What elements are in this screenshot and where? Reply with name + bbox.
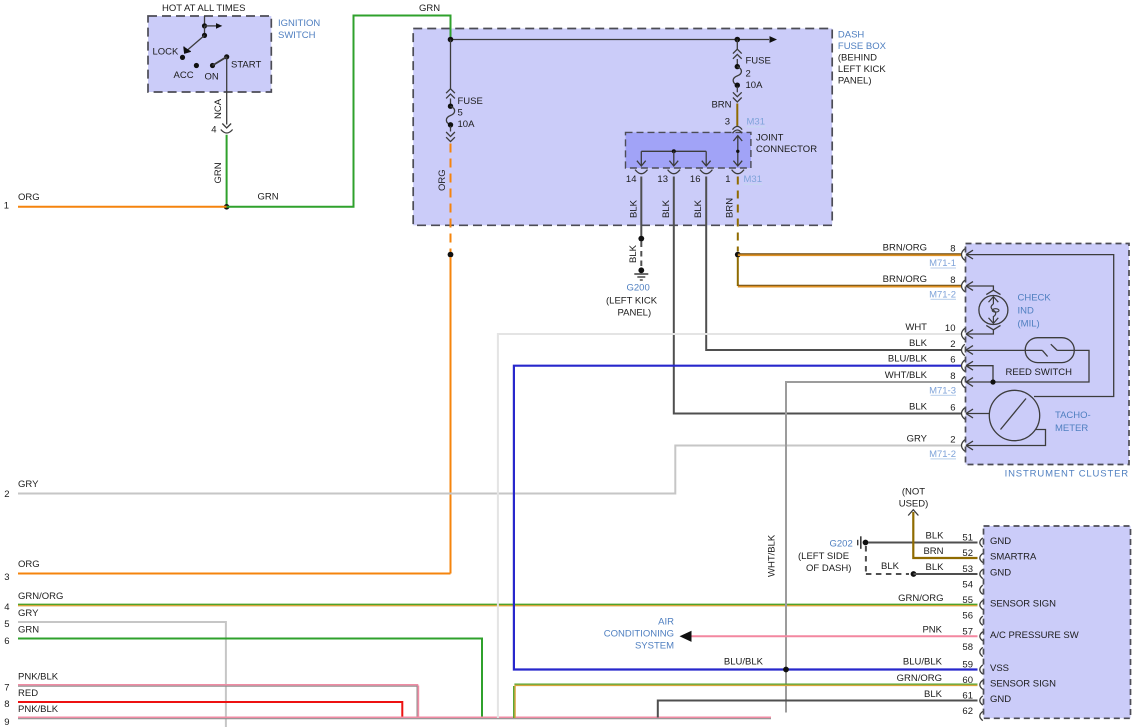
svg-text:BLK: BLK	[693, 199, 704, 218]
svg-text:GRY: GRY	[18, 608, 39, 619]
joint pin 14 arrow	[640, 151, 642, 166]
svg-text:GRN/ORG: GRN/ORG	[18, 591, 63, 602]
node battery feed	[202, 23, 207, 28]
fuse box bus wire	[451, 39, 770, 41]
wire ORG dashed below fuse 5	[450, 144, 452, 253]
cluster pin 8 WHT/BLK	[962, 376, 965, 388]
connector arcs below joint connector	[635, 170, 647, 174]
svg-text:BLK: BLK	[909, 338, 928, 349]
switch blade toward LOCK	[188, 35, 205, 50]
fuse 2 10A	[736, 59, 738, 65]
wire BLU/BLK VSS	[514, 366, 978, 670]
wire BLK pin 14 to G200	[640, 177, 642, 237]
node switch pivot	[204, 26, 206, 36]
instrument cluster box	[966, 244, 1130, 465]
svg-text:GND: GND	[990, 568, 1011, 579]
svg-text:A/C PRESSURE SW: A/C PRESSURE SW	[990, 630, 1079, 641]
svg-text:10A: 10A	[458, 119, 476, 130]
svg-text:BRN: BRN	[711, 100, 731, 111]
svg-text:54: 54	[962, 580, 973, 591]
wire RED circuit 8	[18, 702, 402, 718]
svg-text:61: 61	[962, 691, 973, 702]
svg-text:G200: G200	[627, 283, 650, 294]
svg-text:6: 6	[950, 355, 955, 366]
svg-text:GRY: GRY	[907, 434, 928, 445]
contact START	[224, 54, 229, 59]
svg-text:BLK: BLK	[924, 689, 943, 700]
svg-text:BRN: BRN	[725, 198, 736, 218]
svg-text:LOCK: LOCK	[153, 47, 180, 58]
cluster pin 6 BLK M71-3	[962, 408, 965, 420]
wire GRN circuit 6	[18, 639, 482, 718]
svg-text:6: 6	[950, 403, 955, 414]
svg-text:ORG: ORG	[18, 192, 40, 203]
node ORG/GRN junction	[224, 204, 230, 210]
fuse F2 lead	[736, 40, 738, 50]
wire BLK to ECM 61	[658, 701, 978, 718]
contact LOCK	[180, 55, 185, 60]
svg-text:CONDITIONING: CONDITIONING	[604, 629, 674, 640]
svg-text:51: 51	[962, 533, 973, 544]
ECM pin 51	[980, 538, 983, 547]
svg-text:IND: IND	[1018, 306, 1035, 317]
svg-text:13: 13	[657, 174, 668, 185]
svg-text:METER: METER	[1055, 423, 1088, 434]
svg-text:BLK: BLK	[661, 199, 672, 218]
svg-text:GRN/ORG: GRN/ORG	[898, 593, 943, 604]
cluster pin M71-2 8	[962, 280, 965, 292]
svg-text:BLK: BLK	[909, 402, 928, 413]
svg-text:(BEHIND: (BEHIND	[838, 52, 877, 63]
svg-text:PANEL): PANEL)	[838, 75, 872, 86]
wire BRN dashed pin 1	[737, 177, 739, 252]
svg-text:FUSE: FUSE	[746, 56, 771, 67]
svg-text:7: 7	[4, 683, 9, 694]
tachometer	[989, 390, 1039, 440]
svg-text:GRN: GRN	[18, 625, 39, 636]
contact ACC	[194, 63, 199, 68]
svg-text:PANEL): PANEL)	[618, 308, 652, 319]
wire BLK G202 to ECM 51	[868, 542, 978, 544]
svg-text:INSTRUMENT CLUSTER: INSTRUMENT CLUSTER	[1005, 469, 1129, 480]
cluster wire reed switch to pins 6/8	[966, 350, 1089, 382]
cluster wire pin6 join	[966, 366, 993, 382]
cluster wire pin8 to check lamp	[966, 286, 993, 291]
contact ON	[210, 63, 215, 68]
wire BLK dashed G202 to ECM 53	[865, 546, 867, 574]
ECM connector box	[984, 526, 1131, 718]
svg-text:CHECK: CHECK	[1018, 293, 1052, 304]
svg-text:WHT/BLK: WHT/BLK	[885, 370, 928, 381]
dash fuse box	[413, 29, 832, 226]
arrow to air conditioning system	[680, 631, 692, 642]
joint pin 13 arrow	[673, 151, 675, 166]
wire GRN to fuse box	[227, 16, 451, 207]
svg-text:1: 1	[4, 201, 9, 212]
svg-text:G202: G202	[830, 539, 853, 550]
ECM pin 54	[980, 585, 983, 594]
svg-text:9: 9	[4, 717, 9, 727]
svg-text:BRN/ORG: BRN/ORG	[883, 274, 927, 285]
svg-text:NCA: NCA	[213, 98, 224, 119]
svg-text:GRN/ORG: GRN/ORG	[897, 673, 942, 684]
svg-text:START: START	[231, 60, 261, 71]
svg-text:BLK: BLK	[881, 561, 900, 572]
svg-text:4: 4	[4, 602, 9, 613]
ECM pin 56	[980, 616, 983, 625]
svg-text:PNK/BLK: PNK/BLK	[18, 704, 59, 715]
svg-text:BLK: BLK	[628, 244, 639, 263]
cluster wire pin6 to tachometer	[966, 413, 989, 415]
ground G202	[857, 540, 859, 546]
wire START output	[226, 57, 228, 125]
svg-text:PNK: PNK	[922, 625, 942, 636]
wire BRN fuse 2 to M31	[736, 104, 738, 126]
svg-text:BLK: BLK	[926, 562, 945, 573]
svg-text:SYSTEM: SYSTEM	[635, 641, 674, 652]
svg-text:BRN: BRN	[923, 546, 943, 557]
svg-text:8: 8	[4, 699, 9, 710]
wire ORG circuit 1	[18, 206, 227, 208]
svg-text:6: 6	[4, 636, 9, 647]
ECM pin 61	[980, 696, 983, 705]
svg-text:JOINT: JOINT	[756, 133, 784, 144]
ECM pin 59	[980, 665, 983, 674]
svg-text:DASH: DASH	[838, 29, 865, 40]
check indicator lamp (MIL)	[979, 296, 1008, 325]
wire GRN/ORG to ECM 60	[514, 683, 977, 685]
svg-text:52: 52	[962, 548, 973, 559]
reed switch body	[1025, 338, 1074, 363]
svg-text:GND: GND	[990, 694, 1011, 705]
svg-text:3: 3	[4, 572, 9, 583]
svg-text:(LEFT KICK: (LEFT KICK	[606, 296, 658, 307]
svg-text:2: 2	[746, 69, 751, 80]
svg-text:ORG: ORG	[437, 169, 448, 191]
svg-text:8: 8	[950, 371, 955, 382]
cluster wire lamp to pin10	[966, 329, 993, 334]
wire PNK from A/C pressure switch	[691, 635, 978, 637]
wire PNK/BLK circuit 7	[18, 684, 418, 686]
node ORG splice	[448, 252, 454, 258]
svg-text:M31: M31	[747, 117, 765, 128]
svg-text:BLU/BLK: BLU/BLK	[888, 354, 928, 365]
svg-text:GRN: GRN	[419, 3, 440, 14]
svg-text:16: 16	[690, 174, 701, 185]
svg-text:REED SWITCH: REED SWITCH	[1006, 367, 1073, 378]
node bus left	[448, 37, 454, 43]
cluster pin 2 GRY	[962, 440, 965, 452]
svg-text:ON: ON	[205, 71, 219, 82]
wire WHT/BLK to cluster M71-3	[786, 382, 962, 713]
svg-text:OF DASH): OF DASH)	[806, 563, 851, 574]
svg-text:IGNITION: IGNITION	[278, 18, 320, 29]
svg-text:53: 53	[962, 564, 973, 575]
svg-text:FUSE BOX: FUSE BOX	[838, 41, 887, 52]
ground G200	[634, 273, 648, 275]
fuse F5 top chevrons	[446, 89, 455, 99]
joint pin 1 through wire	[737, 136, 739, 167]
svg-text:56: 56	[962, 611, 973, 622]
wire BRN vertical to M71-2	[737, 257, 739, 286]
connector M31 pin 3	[733, 126, 743, 129]
svg-text:59: 59	[962, 660, 973, 671]
svg-text:SENSOR SIGN: SENSOR SIGN	[990, 599, 1056, 610]
wire ORG circuit 3	[18, 573, 451, 575]
svg-text:8: 8	[950, 275, 955, 286]
node bus right	[735, 37, 741, 43]
joint connector bus	[641, 150, 706, 152]
svg-text:BLK: BLK	[629, 199, 640, 218]
svg-text:60: 60	[962, 675, 973, 686]
wire BLK pin 13	[674, 177, 962, 414]
ECM pin 53	[980, 569, 983, 578]
svg-text:8: 8	[950, 244, 955, 255]
svg-text:RED: RED	[18, 688, 38, 699]
joint connector box	[626, 132, 751, 168]
svg-text:(MIL): (MIL)	[1018, 319, 1040, 330]
svg-text:WHT: WHT	[905, 322, 927, 333]
svg-text:14: 14	[626, 174, 637, 185]
fuse F2 top chevrons	[733, 49, 742, 59]
wire PNK/BLK circuit 9	[18, 716, 771, 718]
svg-text:55: 55	[962, 595, 973, 606]
svg-text:3: 3	[725, 117, 730, 128]
cluster wire pin2 to tachometer	[966, 430, 1046, 446]
blade ON-START	[213, 57, 227, 66]
svg-text:BLU/BLK: BLU/BLK	[724, 657, 764, 668]
svg-text:BLK: BLK	[926, 531, 945, 542]
svg-text:AIR: AIR	[658, 617, 674, 628]
svg-text:PNK/BLK: PNK/BLK	[18, 672, 59, 683]
ECM pin 60	[980, 680, 983, 689]
wire ORG vertical to circuit 3	[450, 257, 452, 574]
svg-text:62: 62	[962, 706, 973, 717]
svg-text:GRN: GRN	[213, 162, 224, 183]
svg-text:GRN: GRN	[258, 192, 279, 203]
ECM pin 57	[980, 632, 983, 641]
wire GRN/ORG circuit 4	[18, 603, 978, 605]
svg-text:ACC: ACC	[174, 70, 194, 81]
svg-text:BLU/BLK: BLU/BLK	[903, 657, 943, 668]
joint pin 16 arrow	[705, 151, 707, 166]
svg-text:ORG: ORG	[18, 559, 40, 570]
svg-text:BRN/ORG: BRN/ORG	[883, 243, 927, 254]
svg-text:(NOT: (NOT	[902, 487, 925, 498]
arrow to ACC/ON feed	[205, 25, 217, 27]
cluster pin 10 WHT	[962, 328, 965, 340]
svg-text:FUSE: FUSE	[458, 96, 483, 107]
ECM pin 55	[980, 600, 983, 609]
wire GRY circuit 5	[18, 622, 226, 727]
svg-text:57: 57	[962, 626, 973, 637]
svg-text:10A: 10A	[746, 80, 764, 91]
svg-text:WHT/BLK: WHT/BLK	[767, 534, 778, 577]
svg-text:4: 4	[211, 125, 216, 136]
svg-text:M31: M31	[744, 174, 762, 185]
cluster pin 2 BLK	[962, 344, 965, 356]
svg-text:SMARTRA: SMARTRA	[990, 552, 1037, 563]
fuse F2 bottom chevrons	[733, 92, 742, 102]
svg-text:HOT AT ALL TIMES: HOT AT ALL TIMES	[162, 3, 245, 14]
svg-text:5: 5	[458, 108, 463, 119]
node cluster vss join	[990, 379, 995, 384]
cluster wire pin2 to reed switch	[966, 349, 1042, 351]
ECM pin 62	[980, 711, 983, 720]
svg-text:10: 10	[945, 323, 956, 334]
svg-text:SENSOR SIGN: SENSOR SIGN	[990, 678, 1056, 689]
svg-text:SWITCH: SWITCH	[278, 30, 316, 41]
svg-text:GRY: GRY	[18, 479, 39, 490]
svg-text:(LEFT SIDE: (LEFT SIDE	[798, 551, 849, 562]
ECM pin 58	[980, 647, 983, 656]
cluster wire pin8 to tachometer	[966, 255, 1114, 397]
svg-text:2: 2	[950, 435, 955, 446]
svg-text:LEFT KICK: LEFT KICK	[838, 64, 887, 75]
svg-text:5: 5	[4, 619, 9, 630]
ECM pin 52	[980, 553, 983, 562]
svg-text:58: 58	[962, 642, 973, 653]
wire BRN not used	[908, 510, 918, 516]
svg-text:USED): USED)	[899, 499, 929, 510]
svg-text:CONNECTOR: CONNECTOR	[756, 144, 817, 155]
node VSS junction	[783, 667, 789, 673]
ignition switch box	[148, 16, 271, 92]
svg-text:2: 2	[950, 339, 955, 350]
wire BLK pin 16	[706, 177, 961, 351]
cluster pin 6 BLU/BLK	[962, 360, 965, 372]
node joint bus	[672, 149, 676, 153]
connector pin 4 (NCA)	[222, 124, 231, 129]
wire GRN from ignition pin 4	[226, 135, 228, 207]
cluster pin M71-1 8	[962, 249, 965, 261]
fuse F5 bottom chevrons	[446, 132, 455, 142]
wire BRN/ORG to M71-2	[738, 284, 962, 286]
svg-text:GND: GND	[990, 536, 1011, 547]
svg-text:2: 2	[4, 489, 9, 500]
wire GRY circuit 2	[18, 446, 962, 494]
node BRN splice	[735, 252, 741, 258]
svg-text:TACHO-: TACHO-	[1055, 410, 1091, 421]
fuse F5 lead	[450, 40, 452, 89]
wire WHT to cluster pin 10	[498, 334, 962, 718]
svg-text:1: 1	[725, 174, 730, 185]
fuse 5 10A	[450, 99, 452, 105]
wire BRN/ORG to M71-1	[738, 253, 962, 255]
ignition switch feed stub	[204, 16, 206, 26]
svg-text:VSS: VSS	[990, 663, 1009, 674]
